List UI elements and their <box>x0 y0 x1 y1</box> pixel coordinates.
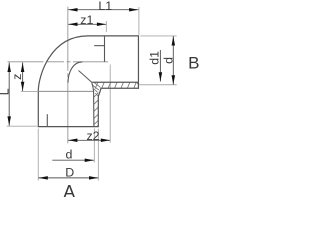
flare diagonal <box>79 71 92 83</box>
extension line L bottom <box>7 125 37 127</box>
extension line D left <box>37 129 39 181</box>
extension line right bottom <box>139 84 177 86</box>
dimension D (bottom) <box>38 166 98 180</box>
dimension z1 <box>68 13 106 27</box>
extension line right top <box>140 35 176 37</box>
svg-text:L: L <box>0 88 12 95</box>
extension line d bottom right <box>93 129 95 163</box>
dimension d1 (right) <box>148 50 163 82</box>
svg-text:z1: z1 <box>80 13 93 27</box>
hatching section strokes <box>93 82 137 130</box>
flare inner curve <box>92 82 94 127</box>
svg-text:d1: d1 <box>148 51 162 65</box>
svg-text:d: d <box>162 57 176 64</box>
socket mouth chamfer <box>136 82 138 84</box>
socket step vertical <box>104 36 106 62</box>
svg-text:d: d <box>65 148 72 162</box>
extension line z1 right <box>105 21 107 32</box>
vertical leg bottom face <box>38 126 99 128</box>
dimension L1 <box>68 0 138 13</box>
dimension z (left) <box>10 63 24 92</box>
extension line z2 right <box>109 65 111 143</box>
crotch arc <box>68 62 82 83</box>
svg-text:z2: z2 <box>86 129 99 143</box>
svg-text:D: D <box>65 166 74 180</box>
svg-text:L1: L1 <box>98 0 112 13</box>
socket step horizontal <box>94 45 104 47</box>
svg-text:A: A <box>63 182 75 197</box>
vertical leg left edge <box>37 91 39 126</box>
elbow outer contour (corner arc, top edge, end face, lip, bottom wall) <box>38 36 138 127</box>
bell top edge <box>38 90 93 92</box>
dimension d (right) <box>162 36 176 85</box>
centerline horizontal leg axis <box>8 61 109 63</box>
dimension d (bottom) <box>52 148 94 162</box>
mouth inner left line <box>46 114 48 126</box>
extension line D right <box>97 129 99 181</box>
centerline vertical leg axis <box>67 7 69 144</box>
bore bottom line of right leg <box>92 81 138 83</box>
svg-text:z: z <box>10 74 24 80</box>
dimension z2 (bottom) <box>68 129 110 143</box>
svg-text:B: B <box>188 53 199 72</box>
extension line z bottom <box>21 90 38 92</box>
dimension L (left) <box>0 63 12 126</box>
extension line L1 right (socket end) <box>138 7 140 35</box>
